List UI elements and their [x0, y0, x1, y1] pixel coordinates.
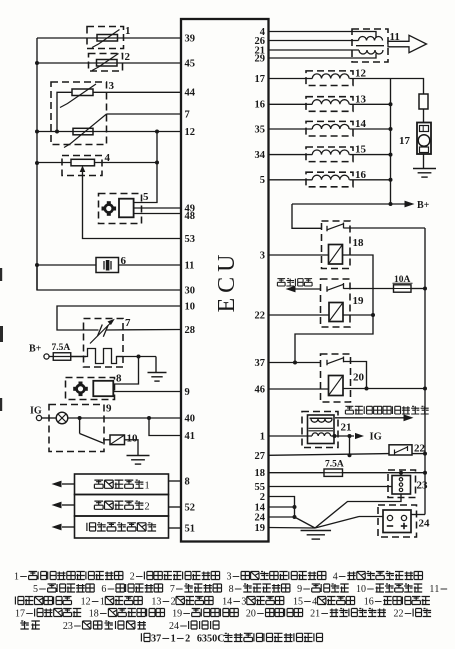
svg-text:2: 2: [185, 634, 190, 645]
svg-text:24: 24: [419, 518, 431, 530]
fuse 7.5A (left): [52, 343, 71, 360]
wire relay19 coil return: [343, 314, 373, 316]
label 4: [105, 152, 111, 164]
wire sensor4 to junction: [95, 162, 158, 164]
svg-text:9: 9: [106, 403, 112, 415]
junction bus/wire11: [35, 263, 39, 267]
IG arrow and label: [355, 432, 382, 443]
fuel pump 17 bottom connector: [420, 147, 429, 153]
wire pin4: [269, 32, 377, 38]
svg-text:41: 41: [185, 431, 196, 442]
svg-text:16: 16: [255, 100, 266, 111]
svg-text:10: 10: [127, 433, 139, 445]
ignition coil 21 dashed box: [302, 412, 338, 448]
wire relay20 output to right bus: [343, 388, 425, 390]
svg-text:46: 46: [255, 384, 266, 395]
label 21: [341, 422, 352, 434]
label 14: [355, 118, 367, 130]
wire pin55 to connector23: [269, 486, 393, 488]
ignition coil 21 inner frame: [308, 415, 335, 444]
stepper output arrow (outline): [388, 35, 427, 52]
wire battery- to ground: [315, 517, 383, 529]
scan artifact specks: [0, 268, 3, 411]
wire pin14: [269, 506, 295, 508]
junction IG drop: [348, 434, 352, 438]
diagnostic connector 23 dashed box: [388, 470, 416, 498]
svg-text:1: 1: [315, 609, 320, 620]
wire pin26: [269, 40, 359, 42]
svg-text:B+: B+: [417, 200, 430, 211]
battery terminal +: [401, 515, 407, 529]
svg-text:17: 17: [255, 74, 266, 85]
label 11: [390, 31, 400, 43]
canister purge solenoid valve 16 dashed box: [306, 172, 353, 187]
svg-text:11: 11: [185, 260, 195, 271]
fuel pump fuse: [419, 94, 428, 109]
wire relay18 coil return: [295, 255, 373, 363]
junction pin41 tap: [147, 416, 151, 420]
junction 2-14: [293, 505, 297, 509]
svg-text:19: 19: [353, 295, 365, 307]
wire pin10 down-left: [57, 306, 181, 330]
sensor 3b slash: [64, 114, 107, 148]
injector cyl 1 (12) dashed box: [306, 71, 353, 86]
arrow out box1: [52, 481, 75, 488]
sensor 3a slash: [60, 84, 96, 108]
label 6: [121, 255, 127, 267]
svg-text:2: 2: [86, 597, 91, 608]
svg-text:28: 28: [185, 325, 196, 336]
junction bus/B+ line: [389, 202, 393, 206]
svg-text:7.5A: 7.5A: [52, 343, 71, 353]
svg-text:5: 5: [298, 597, 303, 608]
fuse 10A: [393, 275, 413, 292]
right supply bus: [424, 228, 426, 515]
oxygen sensor 7 arrow: [90, 319, 115, 344]
svg-text:6: 6: [121, 255, 127, 267]
fuel pump 17 top connector: [420, 126, 429, 132]
main ground symbol: [301, 531, 332, 540]
svg-text:19: 19: [255, 523, 266, 534]
wire relay20 switch drop: [344, 362, 367, 389]
wire junction down to speed sensor 8: [113, 357, 138, 385]
sensor 4 resistor element: [71, 159, 95, 166]
svg-text:3: 3: [109, 80, 115, 92]
knock sensor 6 plates: [104, 261, 111, 271]
svg-text:8: 8: [116, 373, 122, 385]
svg-text:5: 5: [33, 584, 38, 595]
svg-text:15: 15: [355, 144, 367, 156]
wire bus to battery+: [411, 514, 425, 516]
stepper 11 core: [356, 45, 384, 47]
connector 23 top stub: [400, 473, 402, 476]
wire pin37 to relay20 switch: [269, 362, 321, 364]
wire ECU to 13: [269, 103, 313, 105]
svg-text:2: 2: [399, 609, 404, 620]
wire relay18 switch to right bus: [344, 227, 426, 229]
sensor 3b resistor element: [73, 128, 93, 135]
speed sensor 8 body: [93, 381, 113, 396]
svg-text:1: 1: [144, 480, 149, 491]
junction x295/wire37: [293, 361, 297, 365]
svg-text:18: 18: [255, 468, 266, 479]
wire connector23 to ground: [315, 494, 401, 528]
svg-text:4: 4: [333, 572, 338, 583]
main relay 20 dashed box: [321, 354, 351, 402]
HT lead arrow: [335, 414, 414, 421]
relay 19 coil: [329, 303, 343, 322]
wire pin3 to relay18 coil: [269, 254, 329, 256]
stepper 11 winding lower: [359, 50, 383, 54]
wire pin41 drop: [149, 418, 181, 436]
wire ECU to 12: [269, 78, 313, 80]
wire wiper to pin53: [83, 175, 182, 239]
junction 3a-lead/wire12: [55, 130, 59, 134]
junction bus/relay20: [423, 387, 427, 391]
svg-text:2: 2: [260, 492, 265, 503]
relay 18 switch: [327, 223, 344, 232]
svg-text:12: 12: [185, 127, 196, 138]
svg-text:35: 35: [255, 124, 266, 135]
svg-text:3: 3: [260, 250, 265, 261]
wire pin30 from bus: [37, 265, 181, 290]
svg-text:8: 8: [94, 609, 99, 620]
wire box2 to pin52: [169, 506, 182, 508]
oxygen sensor 7 dashed box: [84, 319, 124, 368]
wire relay19 switch to 10A fuse: [344, 288, 394, 290]
svg-text:23: 23: [417, 480, 429, 492]
relay 19 switch: [327, 283, 344, 292]
IG terminal (A/C): [30, 406, 42, 421]
svg-text:3: 3: [156, 597, 161, 608]
wire to ground (O2): [155, 357, 157, 373]
throttle position sensor 4 dashed box: [62, 156, 102, 176]
wire ECU to 16: [269, 179, 313, 181]
junction bus/sensor4: [35, 161, 39, 165]
wire 12 to bus: [350, 78, 391, 80]
wire tie to ground apex: [295, 517, 316, 528]
svg-text:29: 29: [255, 53, 266, 64]
label 19: [353, 295, 365, 307]
injector cyl 3 (14) coil: [312, 124, 349, 129]
indicator lamp: [56, 412, 68, 424]
svg-text:3: 3: [68, 621, 73, 632]
wire 16 to bus: [350, 179, 391, 181]
wire B+ to heater: [49, 356, 86, 358]
wire fuse to pump: [423, 109, 425, 123]
ECU label (rotated): [214, 250, 240, 313]
svg-text:8: 8: [229, 584, 234, 595]
svg-text:24: 24: [255, 512, 266, 523]
svg-text:5: 5: [260, 175, 265, 186]
oxygen sensor 7 heater element: [86, 349, 123, 364]
svg-text:1: 1: [260, 431, 265, 442]
A/C switch 9 dashed box: [49, 405, 104, 452]
ground enrichment line 1 box: [75, 474, 169, 495]
Hall sensor 5 rotor symbol: [102, 201, 117, 216]
svg-text:4: 4: [312, 597, 317, 608]
wire 14 to bus: [350, 128, 391, 130]
junction wire12/x157: [155, 130, 159, 134]
arrow out box3: [52, 524, 75, 531]
B+ arrow and label: [405, 200, 430, 211]
ignition switch 22 blade: [395, 446, 408, 455]
ignition coil 21 core: [309, 428, 334, 431]
svg-text:10: 10: [185, 301, 196, 312]
Hall sensor 5 body: [119, 199, 134, 218]
junction conn23/wire18: [399, 471, 403, 475]
label 1: [125, 25, 131, 37]
fuel pump relay 18 dashed box: [322, 221, 351, 269]
svg-text:13: 13: [355, 93, 367, 105]
svg-text:1: 1: [434, 584, 439, 595]
wire pin46 to relay20 coil: [269, 388, 329, 390]
label 24: [419, 518, 431, 530]
intake pressure/temp sensor 3 dashed box: [51, 82, 107, 145]
svg-text:4: 4: [174, 621, 179, 632]
wire heater to junction: [117, 356, 157, 358]
left ground bus wire: [36, 38, 38, 290]
label 12: [355, 68, 367, 80]
svg-text:51: 51: [185, 523, 196, 534]
svg-text:B+: B+: [29, 344, 42, 355]
speed sensor 8 rotor symbol: [73, 382, 88, 397]
junction 2-24: [293, 515, 297, 519]
svg-text:7.5A: 7.5A: [325, 460, 344, 470]
wire IG-lamp-pin40: [42, 417, 181, 419]
svg-text:45: 45: [185, 58, 196, 69]
svg-text:22: 22: [255, 310, 266, 321]
svg-text:7: 7: [170, 584, 175, 595]
label 17: [399, 135, 411, 147]
label 18: [353, 237, 365, 249]
svg-text:1: 1: [125, 25, 131, 37]
wire box1 to pin8: [169, 480, 182, 482]
relay 20 coil: [329, 376, 344, 396]
wire switch10 to ground: [125, 440, 139, 455]
junction x349/wire27: [348, 453, 352, 457]
svg-text:53: 53: [185, 234, 196, 245]
compressor arrow: [286, 286, 322, 293]
svg-text:9: 9: [297, 584, 302, 595]
svg-text:IG: IG: [30, 406, 42, 417]
injector supply bus: [390, 79, 392, 205]
label 13: [355, 93, 367, 105]
svg-text:12: 12: [355, 68, 367, 80]
label 3: [109, 80, 115, 92]
injector cyl 3 (14) dashed box: [306, 121, 353, 136]
svg-text:2: 2: [171, 597, 176, 608]
svg-text:1: 1: [100, 597, 105, 608]
svg-text:0: 0: [251, 609, 256, 620]
label 8: [116, 373, 122, 385]
battery terminal -: [387, 515, 393, 526]
svg-text:3: 3: [226, 572, 231, 583]
wire sensor5 pin49: [134, 207, 181, 209]
ground symbol (switch 10): [127, 456, 150, 465]
svg-text:40: 40: [185, 413, 196, 424]
svg-text:5: 5: [143, 191, 149, 203]
wire pin12: [37, 131, 181, 133]
connector 23 pins: [399, 478, 402, 492]
ignition coil 21 secondary winding: [312, 433, 331, 436]
svg-text:20: 20: [353, 372, 365, 384]
ECU left pin numbers 39 45 44 7 12 49 48 53 11 30 10 28 9 40 41 8 52 51: [185, 33, 196, 534]
label 7: [125, 317, 131, 329]
svg-text:6: 6: [369, 597, 374, 608]
wire 13 to bus: [350, 103, 391, 105]
junction bus/sw22: [423, 452, 427, 456]
idle stepper motor 11 dashed box: [352, 29, 388, 62]
wire sensor8 to pin9: [113, 391, 181, 393]
arrow out box2: [52, 502, 75, 509]
wire ECU to 15: [269, 154, 313, 156]
ignition coil 21 primary bar: [310, 417, 333, 419]
svg-text:C: C: [217, 634, 224, 645]
wire pin22 to relay19 coil: [269, 314, 330, 316]
junction sw20/coil-line: [365, 387, 369, 391]
svg-text:30: 30: [185, 285, 196, 296]
sensor 3a resistor element: [72, 89, 93, 96]
ground enrichment line 2 text: [94, 501, 149, 512]
injector cyl 1 (12) coil: [312, 74, 349, 79]
wire pin11 through knock sensor: [37, 264, 181, 266]
canister purge solenoid valve 16 coil: [312, 175, 349, 180]
svg-text:7: 7: [156, 634, 161, 645]
label 9: [106, 403, 112, 415]
wire sensor7 to pin28: [106, 329, 182, 332]
wire switch22 to bus: [412, 453, 425, 455]
wire bus to sensor4: [37, 162, 71, 164]
ECU right pin numbers 4 26 21 29 17 16 35 34 5 3 22 37 46 1 27 18 55 2 14 24 19: [255, 27, 266, 534]
junction heater node: [137, 355, 141, 359]
svg-text:48: 48: [185, 211, 196, 222]
wire pin29: [269, 54, 377, 59]
svg-text:52: 52: [185, 502, 196, 513]
wire pin18 through fuse to bus: [269, 472, 426, 474]
junction bus/15: [389, 153, 393, 157]
label 15: [355, 144, 367, 156]
svg-text:6: 6: [101, 584, 106, 595]
caption text lines: [14, 572, 447, 645]
A/C relay 19 dashed box: [321, 279, 351, 327]
svg-text:9: 9: [177, 609, 182, 620]
oxygen sensor 7 plates: [98, 325, 109, 337]
A/C switch blade: [80, 418, 110, 443]
svg-text:21: 21: [341, 422, 352, 434]
injector cyl 4 (15) dashed box: [306, 147, 353, 162]
ECU main control unit box: [181, 19, 269, 542]
A/C condenser temp sensor 1 dashed box: [87, 27, 124, 49]
svg-text:44: 44: [185, 88, 196, 99]
junction bus/10A: [423, 287, 427, 291]
label 10: [127, 433, 139, 445]
wire pump to ground: [423, 154, 425, 168]
ignition switch 22 box: [389, 445, 412, 455]
wire pin21: [269, 49, 360, 51]
svg-text:4: 4: [227, 597, 232, 608]
svg-text:2: 2: [144, 501, 149, 512]
ground enrichment line 1 text: [94, 480, 149, 491]
wire pin19 to ground: [269, 527, 316, 530]
svg-text:39: 39: [185, 33, 196, 44]
wire coil21 to IG: [331, 435, 354, 437]
B+ supply line: [292, 203, 406, 205]
wire pin24: [269, 516, 295, 518]
diagnostic connector 23 inner: [392, 476, 411, 495]
svg-text:1: 1: [171, 634, 176, 645]
ignition correction ground text: [87, 523, 156, 531]
sensor 2 thermistor slash: [92, 54, 119, 71]
svg-text:2: 2: [125, 51, 131, 63]
wire sensor3a left lead down to wire12: [57, 92, 72, 131]
svg-text:ECU: ECU: [214, 250, 240, 313]
wire B+ down to relay18 switch: [292, 204, 322, 228]
svg-text:7: 7: [125, 317, 131, 329]
electric fuel pump 17 body: [417, 123, 431, 155]
battery 24 dashed box: [378, 505, 417, 537]
label 20: [353, 372, 365, 384]
wire IG node to pin27 line: [349, 436, 351, 455]
svg-text:7: 7: [185, 109, 190, 120]
wire ECU to 14: [269, 128, 313, 130]
ground symbol (O2 heater): [148, 373, 167, 382]
svg-text:17: 17: [399, 135, 411, 147]
svg-text:1: 1: [14, 572, 19, 583]
junction lamp node: [78, 416, 82, 420]
junction bus/14: [389, 127, 393, 131]
injector cyl 2 (13) dashed box: [306, 97, 353, 112]
stepper 11 winding upper: [359, 37, 383, 41]
injector cyl 2 (13) coil: [312, 100, 349, 105]
label 23: [417, 480, 429, 492]
ignition coil 21 primary winding: [311, 419, 332, 423]
A/C compressor text: [277, 279, 312, 286]
sensor 1 resistor element: [97, 35, 118, 42]
fuel pump 17 motor circle: [418, 135, 430, 147]
junction coil19/x373: [371, 313, 375, 317]
relay 18 coil: [329, 245, 343, 265]
wire pin7 from sensor3: [107, 113, 182, 115]
wire box3 to pin51: [169, 527, 182, 529]
svg-text:7: 7: [20, 609, 25, 620]
junction bus/13: [389, 102, 393, 106]
label 22: [414, 443, 426, 455]
wire pin27 to switch22: [269, 454, 390, 456]
svg-text:8: 8: [185, 476, 190, 487]
ground enrichment line 2 box: [75, 495, 169, 517]
svg-text:9: 9: [185, 387, 190, 398]
svg-text:18: 18: [353, 237, 365, 249]
knock sensor 6 outline: [96, 258, 119, 273]
injector cyl 4 (15) coil: [312, 150, 349, 155]
fuse 7.5A (bottom): [324, 460, 344, 477]
junction sensor4/x157: [155, 161, 159, 165]
svg-text:16: 16: [355, 169, 367, 181]
junction bus/sensor2: [35, 61, 39, 65]
wire pin2: [269, 497, 295, 518]
junction bus/16: [389, 178, 393, 182]
label 16: [355, 169, 367, 181]
svg-text:37: 37: [255, 358, 266, 369]
wire pin39 to sensor1: [37, 37, 181, 39]
svg-text:27: 27: [255, 451, 266, 462]
ground symbol (fuel pump): [413, 169, 436, 178]
wire sensor5 pin48: [134, 213, 181, 215]
wire 15 to bus: [350, 154, 391, 156]
wire pin1 to coil21: [269, 435, 313, 437]
sensor 4 wiper arrow: [80, 166, 86, 175]
